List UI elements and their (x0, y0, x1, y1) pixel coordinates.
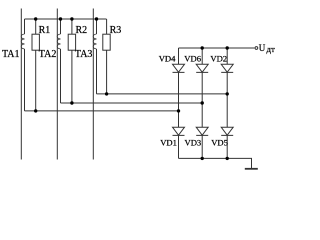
wire R2 bottom (71, 50, 73, 103)
wire bridge column 1 (178, 48, 180, 158)
positive output bus wire (179, 47, 255, 49)
node bridge column3 AC junction (226, 92, 229, 95)
svg-text:R2: R2 (76, 25, 88, 36)
svg-text:R1: R1 (39, 25, 51, 36)
svg-text:VD4: VD4 (159, 53, 176, 63)
transformer TA3 secondary winding (93, 34, 96, 49)
wire TA2 secondary bottom (60, 49, 62, 103)
wire R3 bottom (106, 50, 108, 94)
node plus bus column2 (201, 46, 204, 49)
node plus bus column3 (226, 46, 229, 49)
wire R3 top (106, 19, 108, 34)
node R1 top junction (34, 17, 37, 20)
svg-text:VD2: VD2 (210, 53, 227, 63)
wire R1 bottom (35, 50, 37, 111)
diode VD4 (173, 64, 185, 72)
transformer TA1 secondary lead top (24, 19, 26, 34)
wire bridge column 2 (201, 48, 203, 158)
node minus bus column2 (201, 157, 204, 160)
svg-text:TA3: TA3 (75, 49, 93, 60)
svg-text:TA1: TA1 (2, 49, 20, 60)
node bridge column2 AC junction (201, 101, 204, 104)
wire bridge column 3 (226, 48, 228, 158)
node TA3 secondary top junction (95, 17, 98, 20)
phase wire B (56, 9, 58, 160)
svg-text:R3: R3 (110, 25, 122, 36)
resistor R2 (68, 34, 75, 50)
wire R1 top (35, 19, 37, 34)
wire phase3 AC lead to bridge (97, 93, 228, 95)
resistor R1 (32, 34, 39, 50)
wire TA1 secondary bottom (24, 49, 26, 111)
svg-text:Uдт: Uдт (259, 43, 275, 54)
svg-text:VD1: VD1 (160, 137, 177, 147)
svg-text:VD3: VD3 (185, 137, 202, 147)
svg-text:TA2: TA2 (39, 49, 57, 60)
wire phase2 AC lead to bridge (61, 102, 203, 104)
svg-text:VD5: VD5 (211, 137, 228, 147)
node minus bus column3 (226, 157, 229, 160)
svg-text:VD6: VD6 (184, 53, 201, 63)
diode VD1 (173, 127, 185, 135)
wire R2 top (71, 19, 73, 34)
wire phase1 AC lead to bridge (25, 110, 179, 112)
transformer TA3 secondary lead top (96, 19, 98, 34)
diode VD6 (196, 64, 208, 72)
node R2 bottom junction (70, 101, 73, 104)
transformer TA1 secondary winding (21, 34, 24, 49)
star-point bus wire (25, 18, 107, 20)
resistor R3 (103, 34, 110, 50)
phase wire C (92, 9, 94, 160)
node TA2 secondary top junction (59, 17, 62, 20)
phase wire A (20, 9, 22, 160)
terminal Udt (255, 47, 258, 50)
node R2 top junction (70, 17, 73, 20)
node R3 bottom junction (105, 92, 108, 95)
transformer TA2 secondary lead top (60, 19, 62, 34)
ground (245, 168, 258, 170)
diode VD2 (221, 64, 233, 72)
node R1 bottom junction (34, 109, 37, 112)
diode VD5 (221, 127, 233, 135)
wire TA3 secondary bottom (96, 49, 98, 94)
node bridge column1 AC junction (177, 109, 180, 112)
negative output bus wire (179, 158, 252, 168)
transformer TA2 secondary winding (57, 34, 60, 49)
diode VD3 (196, 127, 208, 135)
